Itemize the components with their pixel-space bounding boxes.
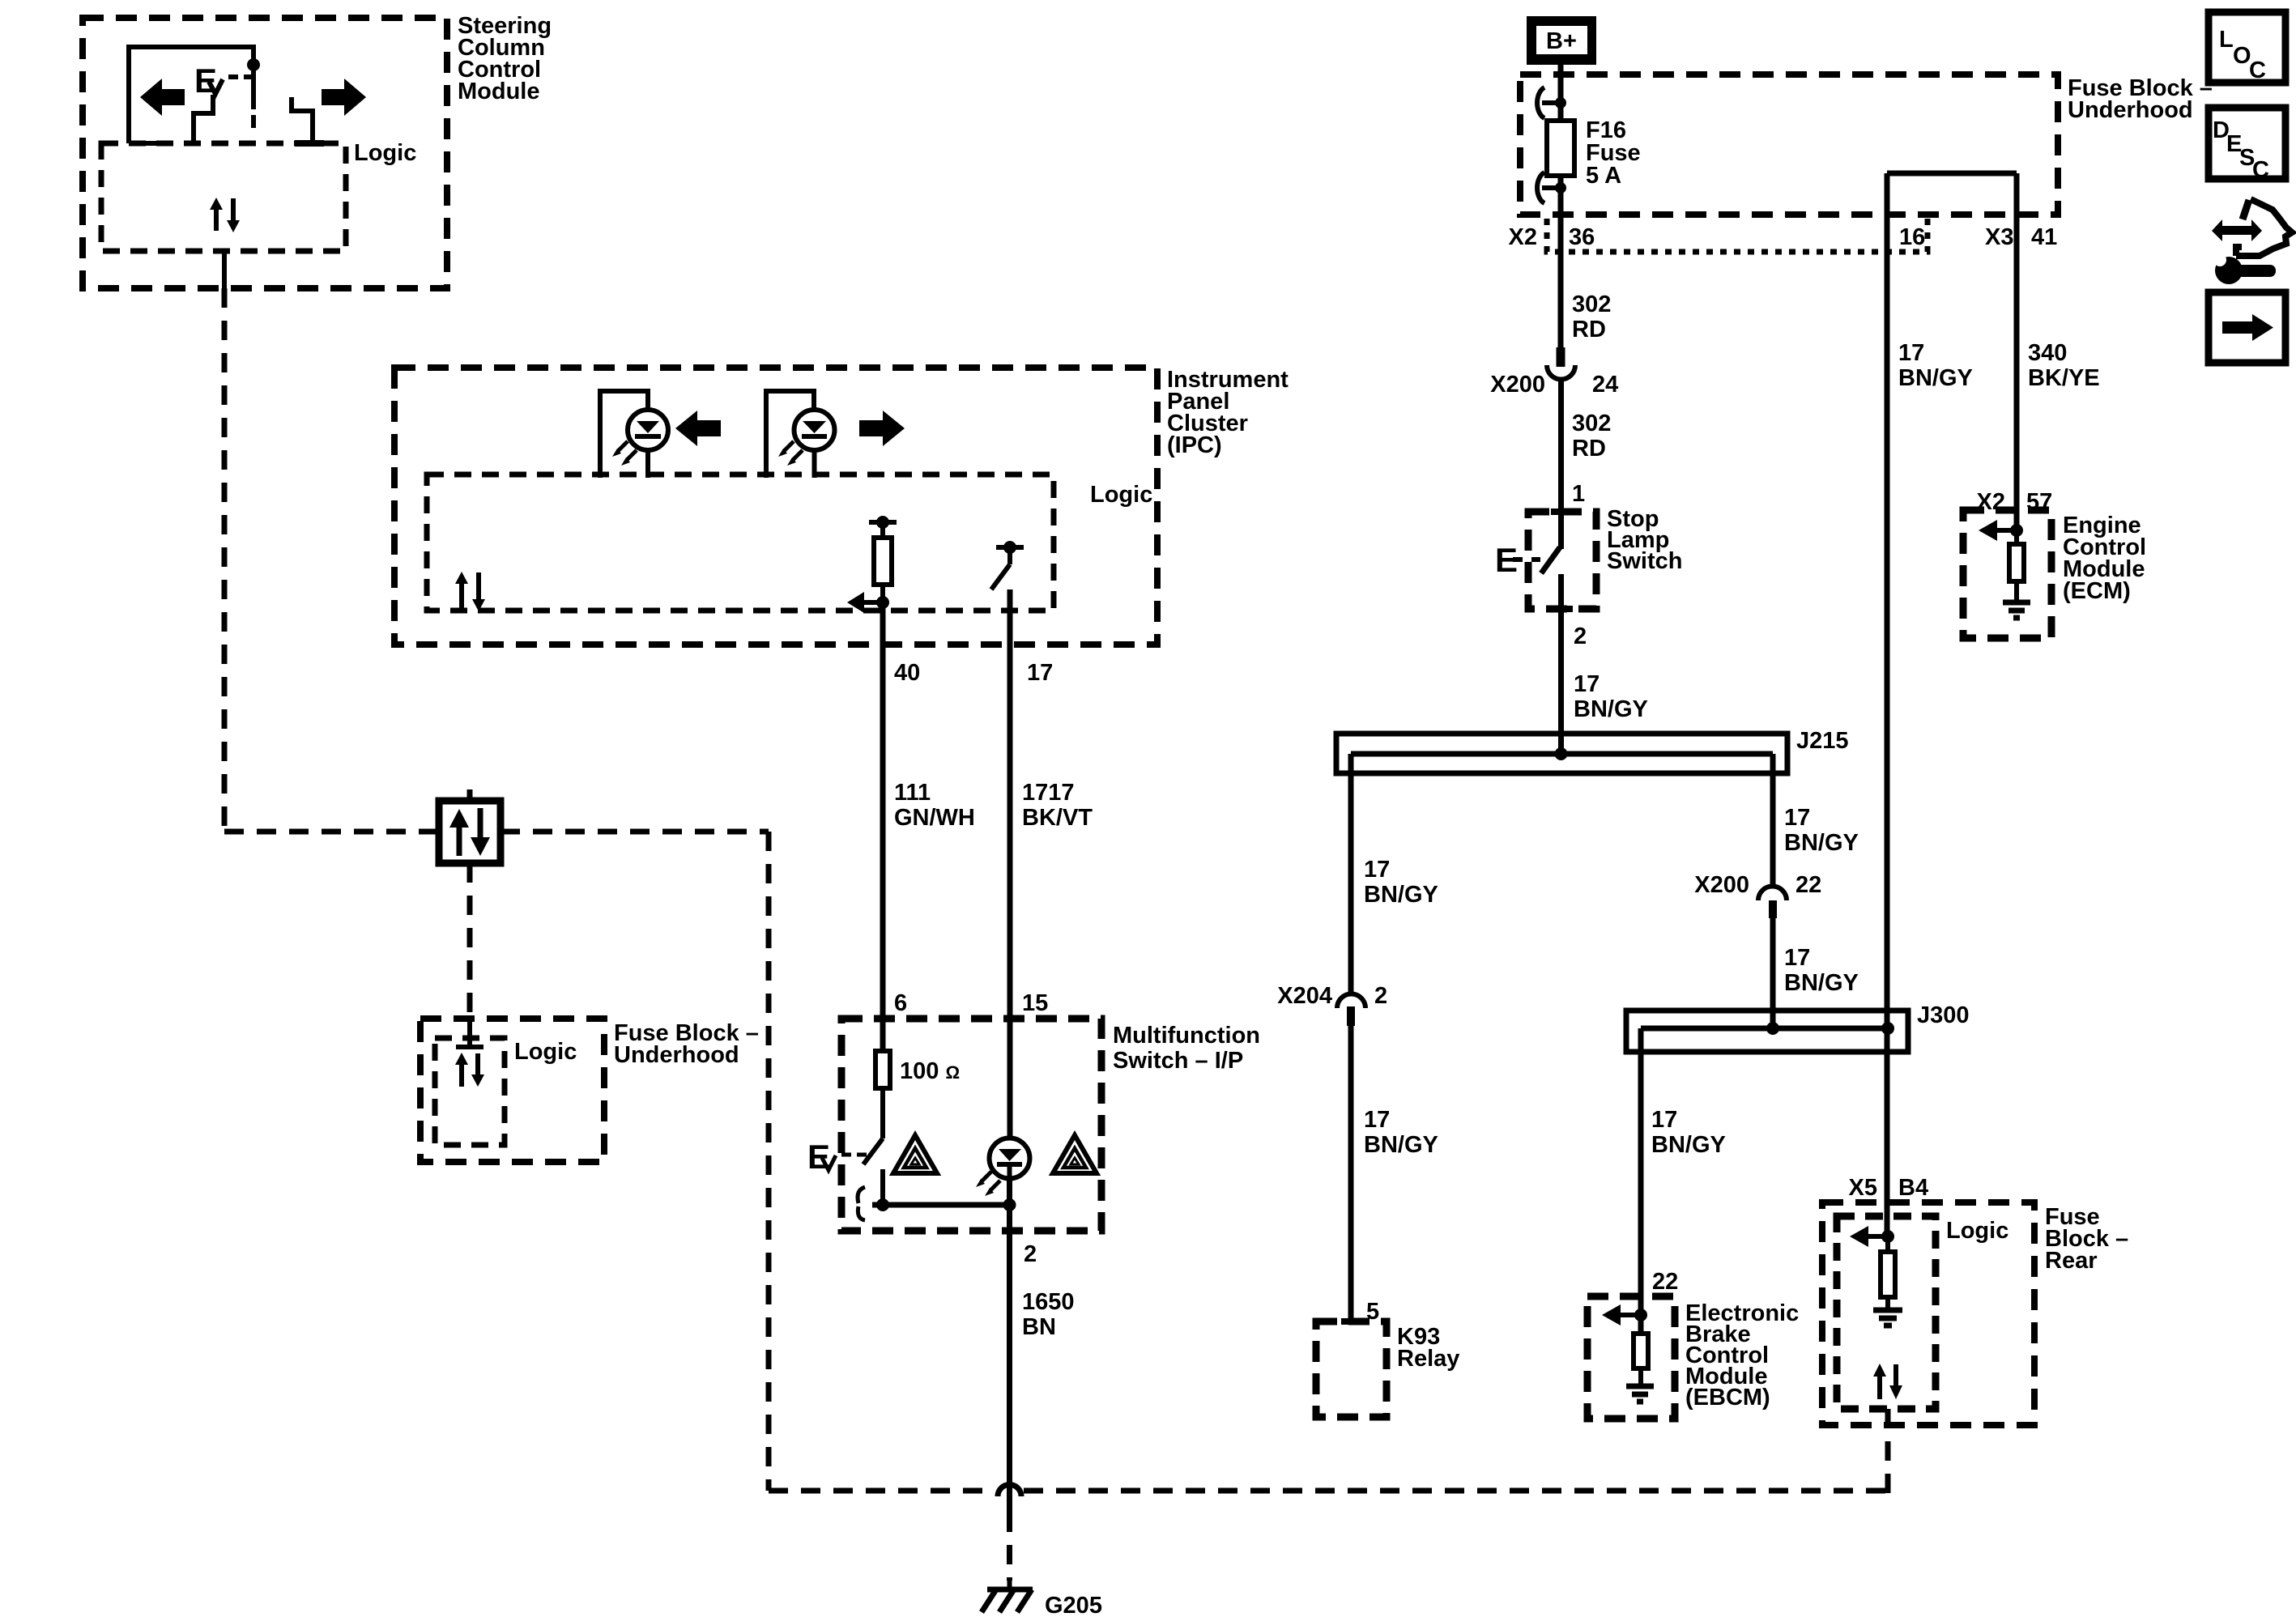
svg-text:BK/VT: BK/VT [1022,805,1093,831]
resistor R1 in IPC logic [874,538,892,585]
svg-text:Module: Module [458,79,540,104]
svg-text:BN: BN [1022,1314,1056,1340]
svg-text:1717: 1717 [1022,780,1075,806]
wire fuse output through connector [1558,176,1564,347]
node: junction dot J300 right [1881,1022,1894,1035]
svg-text:B+: B+ [1546,28,1577,54]
wire serial data dashed across bottom (left of hop) [769,1488,995,1494]
wire J215 left branch circuit 17 [1348,754,1354,994]
svg-text:Underhood: Underhood [2068,97,2193,123]
icon DESC box [2209,108,2285,183]
wire circuit 17 to K93 relay [1348,1026,1354,1321]
wire J300 branch to EBCM [1638,1028,1644,1296]
svg-text:100 Ω: 100 Ω [900,1058,960,1084]
svg-text:17: 17 [1784,945,1810,971]
svg-text:(IPC): (IPC) [1167,432,1222,458]
module ECM dashed box [1963,510,2146,638]
wire J215 internal bus [1351,751,1773,757]
svg-text:X2: X2 [1509,224,1537,250]
svg-text:G205: G205 [1045,1593,1102,1617]
module S4 Multifunction Switch dashed box [841,1019,1260,1231]
wire label 17 BN/GY [1898,340,1973,391]
svg-text:X204: X204 [1277,983,1332,1009]
svg-text:5 A: 5 A [1586,163,1621,189]
svg-text:15: 15 [1022,990,1048,1016]
svg-text:2: 2 [1574,623,1587,649]
logic block of fuse block rear [1837,1216,2008,1409]
svg-text:GN/WH: GN/WH [894,805,975,831]
connector X200 pin 22 inline [1694,872,1821,918]
wire hop over ground lead [998,1485,1021,1497]
wire label 302 RD upper [1572,291,1611,343]
wire 302 RD to stop lamp switch [1558,380,1564,512]
LED light emission arrows [612,441,637,466]
svg-text:22: 22 [1652,1269,1678,1295]
switch feed bar in IPC logic [996,541,1024,554]
svg-text:17: 17 [1364,1107,1390,1133]
pin row labels X2 36 16 X3 41 [1509,224,2058,250]
svg-text:(ECM): (ECM) [2063,578,2131,604]
svg-text:X5: X5 [1849,1175,1877,1201]
terminal clip lower of F16 [1537,172,1566,203]
module U1 Steering Column Control Module dashed box [83,13,552,288]
switch S5 Stop Lamp Switch dashed box [1528,506,1682,609]
wire circuit 1650 to ground [1007,1179,1012,1513]
svg-text:1650: 1650 [1022,1289,1075,1315]
connector X204 pin 2 inline [1277,983,1387,1026]
svg-text:6: 6 [894,990,907,1016]
wire entry tick into logic [456,1019,483,1047]
module Instrument Panel Cluster dashed box [394,367,1289,645]
icon LOC box [2209,12,2285,83]
pin row labels X2 57 [1977,489,2053,515]
wire serial data dashed down right side [766,832,772,1491]
up/down data arrows in U1 logic [210,198,240,232]
svg-text:2: 2 [1024,1241,1037,1267]
label E at stop lamp switch [1495,541,1540,579]
svg-text:Logic: Logic [514,1039,577,1065]
wire B+ feed [1558,62,1564,121]
svg-text:24: 24 [1592,372,1618,398]
node: junction dot J300 left [1766,1022,1779,1035]
svg-text:Switch – I/P: Switch – I/P [1113,1048,1243,1074]
ground symbol in EBCM [1626,1368,1654,1402]
LED indicator left turn lamp [628,410,668,478]
wire serial data dashed to connector box [224,829,439,835]
svg-text:41: 41 [2031,224,2057,250]
fuse F16 5A [1547,117,1641,189]
svg-text:X3: X3 [1985,224,2013,250]
svg-text:1: 1 [1572,481,1585,507]
svg-text:17: 17 [1651,1107,1677,1133]
node: junction dot at hazard contact [876,1198,889,1211]
wire serial data dashed from U1 down [222,288,228,832]
wire serial data dashed right of connector box [501,829,769,835]
svg-text:Logic: Logic [1090,482,1152,508]
wire hazard common [872,1202,1010,1208]
resistor R5 in fuse block rear [1881,1236,1895,1297]
icon vehicle with arrows and wrench [2212,199,2292,284]
ground symbol in ECM [2003,581,2030,618]
wire J300 internal bus [1641,1026,1888,1032]
svg-text:302: 302 [1572,411,1611,436]
ground G205 [982,1578,1102,1617]
switch S4 hazard blade [863,1138,883,1164]
wire dashed from connector box down to fuse block logic [467,863,473,1019]
wire J215 right branch circuit 17 [1770,754,1776,887]
label E with check at hazard switch [807,1138,867,1176]
wire label 302 RD lower [1572,411,1611,462]
switch S1 left turn contact [194,95,213,143]
EBCM input node and arrow [1602,1296,1647,1334]
wire label 17 BN/GY [1651,1107,1726,1158]
label E (ignition voltage) with check [194,62,252,100]
icon forward arrow box [2209,292,2285,363]
wire label 17 BN/GY [1364,1107,1438,1158]
wire label 1650 BN [1022,1289,1075,1340]
svg-text:17: 17 [1574,671,1600,697]
left turn arrow icon [140,79,185,116]
module Fuse Block - Underhood (logic section) dashed box [420,1019,759,1162]
switch S2 right turn contact [292,97,324,143]
module EBCM dashed box [1587,1296,1799,1419]
wire bar to resistor [880,522,885,538]
svg-text:BN/GY: BN/GY [1898,365,1973,391]
wire circuit 17 BN/GY from pin 16 [1885,173,1890,1236]
svg-text:340: 340 [2028,340,2067,366]
splice pack J300 [1626,1002,1970,1052]
resistor R3 in EBCM [1634,1334,1648,1368]
svg-text:36: 36 [1569,224,1595,250]
wire hazard switch lower contact [880,1169,885,1205]
svg-text:2: 2 [1374,983,1387,1009]
wire from U1 logic to module edge [222,251,227,288]
node: junction dot at LED output [1003,1198,1016,1211]
svg-text:Relay: Relay [1397,1346,1459,1372]
svg-text:BN/GY: BN/GY [1364,1132,1438,1158]
wire label 111 GN/WH [894,780,975,831]
wire dashed ground lead [1007,1513,1012,1581]
svg-text:BN/GY: BN/GY [1574,696,1648,722]
wire label 340 BK/YE [2028,340,2100,391]
up/down data arrows in IPC logic [455,572,485,611]
wire label 17 BN/GY [1574,671,1648,722]
wire dashed from FBR logic to hazard feed [1885,1409,1891,1494]
pin row labels X5 B4 [1849,1175,1929,1201]
wire circuit 17 to J215 [1558,609,1564,755]
svg-text:J300: J300 [1917,1002,1970,1028]
svg-text:BN/GY: BN/GY [1784,970,1859,996]
svg-text:302: 302 [1572,291,1611,317]
svg-text:B4: B4 [1898,1175,1928,1201]
svg-text:C: C [2249,57,2266,83]
FBR input node and arrow [1850,1226,1894,1247]
wire serial data dashed across bottom (right of hop) [1024,1488,1887,1494]
logic block of fuse block underhood [435,1038,577,1145]
wire circuit 340 BK/YE from pin 41 [2014,173,2020,530]
ground symbol in fuse block rear [1873,1297,1902,1326]
terminal clip upper of F16 [1537,87,1566,118]
module Fuse Block - Underhood dashed box [1520,74,2213,215]
svg-text:J215: J215 [1796,728,1849,754]
switch S3 in IPC logic [991,547,1010,589]
wire resistor to node [880,585,885,602]
switch S5 blade [1541,512,1561,609]
power B+ terminal [1527,16,1596,65]
LED indicator left turn: wire loop [600,391,648,478]
LED light emission arrows [778,441,803,466]
svg-text:22: 22 [1795,872,1821,898]
wire bus bar internal fuse block (pins 16/41) [1887,171,2017,177]
wire label 1717 BK/VT [1022,780,1093,831]
right arrow icon in IPC [859,411,905,446]
splice pack J215 [1336,728,1849,773]
wire label 17 BN/GY [1364,857,1438,908]
wire label 17 BN/GY [1784,805,1859,856]
up/down data arrows in fuse block rear logic [1873,1364,1902,1399]
svg-text:BN/GY: BN/GY [1364,882,1438,908]
svg-text:Rear: Rear [2045,1248,2098,1274]
svg-text:17: 17 [1364,857,1390,883]
left arrow icon in IPC [675,411,721,446]
resistor R2 100 ohm [875,1051,960,1088]
hazard triangle icon left [893,1135,937,1173]
svg-text:Multifunction: Multifunction [1113,1023,1260,1049]
node: junction dot below R1 [876,596,889,609]
svg-text:17: 17 [1027,660,1053,686]
LED light emission arrows [976,1172,1000,1196]
LED indicator right turn lamp [794,410,835,478]
wire label 17 BN/GY [1784,945,1859,996]
connector pass-through box with up/down arrows [427,789,513,874]
svg-text:111: 111 [894,780,931,806]
module Fuse Block - Rear dashed box [1822,1202,2128,1425]
detent arcs at hazard contact [858,1187,865,1220]
svg-text:X200: X200 [1490,372,1545,398]
svg-text:RD: RD [1572,436,1606,462]
svg-text:Logic: Logic [354,140,416,166]
connector grouping dotted bracket X2/X3 [1547,219,1928,252]
LED hazard indicator lamp [990,1138,1030,1180]
hazard triangle icon right [1053,1135,1097,1173]
svg-text:Logic: Logic [1946,1218,2008,1244]
relay K93 dashed box [1316,1321,1459,1417]
svg-text:BK/YE: BK/YE [2028,365,2100,391]
resistor feed bar in IPC logic [869,516,897,529]
ECM input node and arrow [1979,520,2023,541]
right turn arrow icon [322,79,366,116]
up/down data arrows in fuse block logic [455,1053,484,1087]
svg-text:40: 40 [894,660,920,686]
wire circuit 111 from IPC pin 40 [880,602,886,1051]
logic block of U1 [101,140,416,251]
logic block of IPC [427,474,1152,611]
svg-text:C: C [2252,157,2269,183]
resistor R4 in ECM [2009,530,2024,581]
wire circuit 17 to J300 [1770,918,1776,1028]
turn signal lever switch solid box inside U1 [129,47,253,143]
svg-text:17: 17 [1784,805,1810,831]
node: junction dot J215 [1555,747,1568,760]
wire circuit 1717 from IPC pin 17 [1007,589,1013,1138]
connector X200 pin 24 inline [1490,347,1618,398]
svg-text:RD: RD [1572,317,1606,343]
wire R2 to hazard switch [880,1088,885,1138]
svg-text:L: L [2219,27,2234,53]
svg-text:BN/GY: BN/GY [1784,830,1859,856]
svg-text:Switch: Switch [1607,548,1682,574]
svg-text:X200: X200 [1694,872,1749,898]
svg-text:(EBCM): (EBCM) [1685,1385,1770,1411]
node: junction dot on lever box [247,58,260,71]
svg-text:BN/GY: BN/GY [1651,1132,1726,1158]
LED indicator right turn: wire loop [766,391,814,478]
svg-text:17: 17 [1898,340,1924,366]
svg-text:Underhood: Underhood [614,1042,739,1068]
svg-text:16: 16 [1899,224,1925,250]
signal arrow left in IPC logic [847,592,883,613]
